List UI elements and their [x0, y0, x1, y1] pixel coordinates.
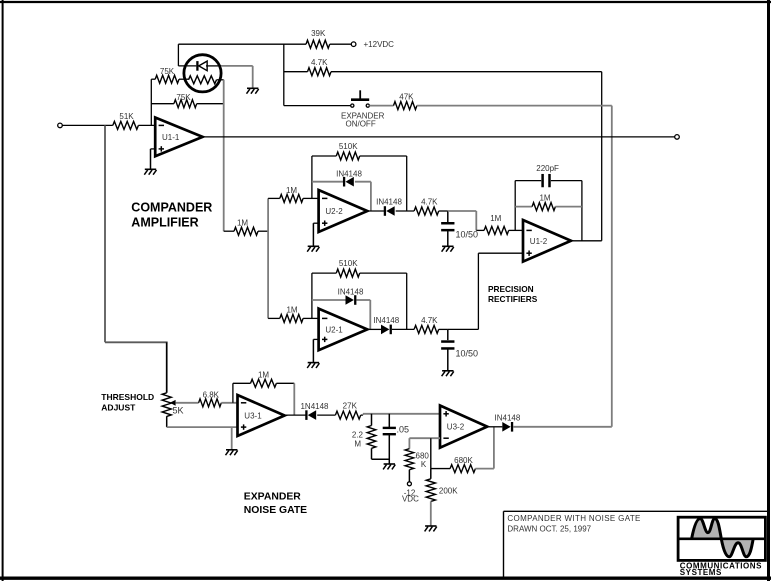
svg-text:27K: 27K: [343, 402, 358, 411]
svg-text:1M: 1M: [286, 306, 297, 315]
svg-text:ON/OFF: ON/OFF: [345, 120, 375, 129]
svg-text:510K: 510K: [339, 142, 358, 151]
svg-text:75K: 75K: [176, 93, 191, 102]
svg-text:75K: 75K: [160, 67, 175, 76]
svg-text:4.7K: 4.7K: [311, 58, 328, 67]
svg-text:.05: .05: [397, 424, 410, 434]
svg-text:RECTIFIERS: RECTIFIERS: [488, 294, 538, 304]
svg-text:U3-1: U3-1: [244, 412, 262, 421]
svg-text:10/50: 10/50: [456, 349, 479, 359]
svg-text:COMPANDER: COMPANDER: [131, 200, 212, 214]
svg-text:200K: 200K: [439, 487, 458, 496]
svg-text:5K: 5K: [173, 406, 184, 416]
svg-text:51K: 51K: [119, 112, 134, 121]
svg-text:U1-1: U1-1: [162, 133, 180, 142]
svg-text:1M: 1M: [490, 214, 501, 223]
svg-text:4.7K: 4.7K: [421, 198, 438, 207]
svg-text:IN4148: IN4148: [376, 198, 402, 207]
svg-text:U1-2: U1-2: [530, 237, 548, 246]
svg-text:VDC: VDC: [402, 495, 419, 504]
svg-text:IN4148: IN4148: [495, 413, 521, 422]
svg-text:6.8K: 6.8K: [203, 390, 220, 399]
svg-text:ADJUST: ADJUST: [101, 403, 136, 413]
svg-text:U3-2: U3-2: [447, 423, 465, 432]
svg-text:M: M: [354, 440, 361, 449]
svg-text:COMPANDER WITH NOISE GATE: COMPANDER WITH NOISE GATE: [507, 514, 640, 523]
svg-text:SYSTEMS: SYSTEMS: [680, 568, 722, 577]
svg-text:1M: 1M: [258, 371, 269, 380]
svg-text:IN4148: IN4148: [336, 169, 362, 178]
svg-text:1N4148: 1N4148: [300, 402, 329, 411]
svg-text:47K: 47K: [399, 93, 414, 102]
svg-text:2.2: 2.2: [352, 431, 364, 440]
svg-text:EXPANDER: EXPANDER: [244, 492, 301, 503]
svg-text:U2-1: U2-1: [325, 325, 343, 334]
svg-text:K: K: [421, 460, 427, 469]
svg-text:4.7K: 4.7K: [421, 316, 438, 325]
svg-text:1M: 1M: [286, 186, 297, 195]
svg-text:10/50: 10/50: [456, 229, 479, 239]
svg-text:THRESHOLD: THRESHOLD: [101, 392, 154, 402]
svg-text:39K: 39K: [311, 29, 326, 38]
svg-text:680K: 680K: [454, 456, 473, 465]
svg-text:AMPLIFIER: AMPLIFIER: [131, 216, 198, 230]
svg-text:IN4148: IN4148: [338, 287, 364, 296]
svg-text:NOISE GATE: NOISE GATE: [244, 505, 307, 516]
svg-text:220pF: 220pF: [536, 164, 559, 173]
svg-text:1M: 1M: [237, 218, 248, 227]
svg-text:PRECISION: PRECISION: [488, 284, 534, 294]
svg-text:DRAWN OCT. 25, 1997: DRAWN OCT. 25, 1997: [507, 525, 591, 534]
svg-text:+12VDC: +12VDC: [364, 40, 395, 49]
svg-text:510K: 510K: [339, 259, 358, 268]
svg-text:IN4148: IN4148: [373, 316, 399, 325]
svg-text:1M: 1M: [539, 193, 550, 202]
svg-text:U2-2: U2-2: [325, 207, 343, 216]
